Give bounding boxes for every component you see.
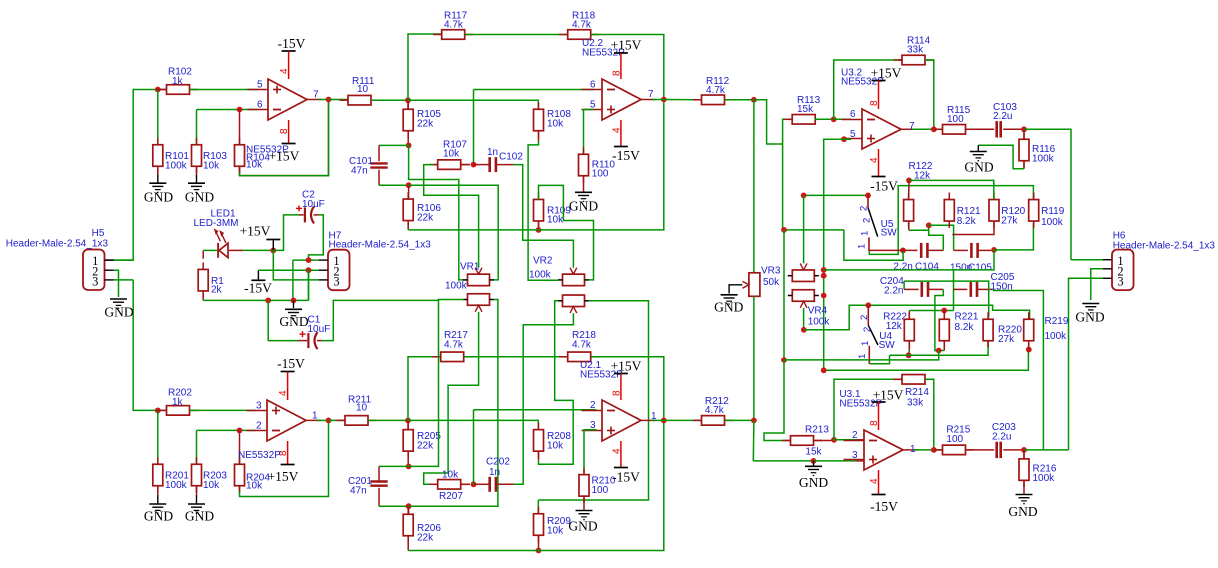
svg-text:22k: 22k [417,119,434,130]
svg-text:10k: 10k [442,470,459,481]
svg-text:2.2u: 2.2u [992,432,1011,443]
svg-text:VR4: VR4 [808,306,828,317]
svg-text:100k: 100k [165,161,188,172]
svg-text:1k: 1k [172,397,184,408]
svg-text:3: 3 [333,275,339,289]
svg-text:50k: 50k [763,277,780,288]
svg-text:GND: GND [185,509,214,524]
svg-text:10: 10 [356,403,368,414]
svg-text:R207: R207 [439,491,463,502]
svg-text:100k: 100k [529,270,552,281]
svg-text:100k: 100k [1033,473,1056,484]
svg-text:+15V: +15V [269,149,300,164]
svg-text:4: 4 [869,478,880,484]
svg-text:100: 100 [592,485,609,496]
svg-text:10k: 10k [547,526,564,537]
svg-text:8: 8 [279,128,290,134]
svg-text:-15V: -15V [870,499,898,514]
svg-text:15k: 15k [797,104,814,115]
svg-text:6: 6 [590,80,596,91]
svg-text:1n: 1n [489,467,500,478]
svg-text:+15V: +15V [611,359,642,374]
svg-text:-15V: -15V [278,36,306,51]
svg-text:4.7k: 4.7k [706,85,726,96]
svg-text:10k: 10k [547,215,564,226]
svg-text:2: 2 [256,421,262,432]
svg-text:VR3: VR3 [761,266,781,277]
svg-text:10k: 10k [443,149,460,160]
svg-text:GND: GND [279,314,308,329]
svg-text:2k: 2k [211,285,223,296]
svg-text:4.7k: 4.7k [572,340,592,351]
svg-text:7: 7 [909,121,915,132]
svg-text:GND: GND [964,160,993,175]
svg-text:NE5532P: NE5532P [238,450,281,461]
svg-text:C102: C102 [499,152,523,163]
svg-text:5: 5 [257,80,263,91]
svg-text:100k: 100k [165,480,188,491]
svg-text:8: 8 [612,70,623,76]
svg-text:6: 6 [257,100,263,111]
svg-text:1: 1 [860,231,871,236]
svg-text:10uF: 10uF [308,324,331,335]
svg-text:47n: 47n [351,166,368,177]
svg-text:VR1: VR1 [460,262,480,273]
svg-text:47n: 47n [350,486,367,497]
svg-text:150n: 150n [991,282,1013,293]
svg-text:+15V: +15V [268,469,299,484]
svg-text:22k: 22k [417,533,434,544]
svg-text:33k: 33k [907,398,924,409]
svg-text:+15V: +15V [871,66,902,81]
svg-text:8: 8 [869,100,880,106]
svg-text:GND: GND [144,190,173,205]
svg-text:8.2k: 8.2k [957,216,977,227]
svg-text:-15V: -15V [612,148,640,163]
svg-text:SW: SW [879,340,896,351]
svg-text:4: 4 [278,390,289,396]
svg-text:+15V: +15V [611,38,642,53]
svg-text:4.7k: 4.7k [444,340,464,351]
svg-text:3: 3 [92,275,98,289]
svg-text:C202: C202 [486,457,510,468]
svg-text:4: 4 [279,68,290,74]
svg-text:C105: C105 [968,263,992,274]
svg-text:7: 7 [648,89,654,100]
svg-text:3: 3 [256,401,262,412]
svg-text:2: 2 [862,327,873,332]
svg-text:4.7k: 4.7k [572,20,592,31]
svg-text:GND: GND [714,300,743,315]
svg-text:100: 100 [947,114,964,125]
svg-text:Header-Male-2.54_1x3: Header-Male-2.54_1x3 [6,239,109,250]
svg-text:15k: 15k [805,447,822,458]
svg-text:100k: 100k [1032,154,1055,165]
svg-text:VR2: VR2 [533,256,553,267]
svg-text:-15V: -15V [277,356,305,371]
svg-text:2.2n: 2.2n [884,286,903,297]
svg-text:100: 100 [946,434,963,445]
svg-text:10uF: 10uF [302,199,325,210]
svg-text:2: 2 [859,206,870,211]
svg-text:4: 4 [612,127,623,133]
svg-text:10: 10 [357,84,369,95]
svg-text:1k: 1k [172,76,184,87]
svg-text:Header-Male-2.54_1x3: Header-Male-2.54_1x3 [1113,240,1216,251]
svg-text:8: 8 [869,420,880,426]
svg-text:-15V: -15V [612,470,640,485]
svg-text:100k: 100k [1041,217,1064,228]
svg-text:1: 1 [857,244,868,249]
svg-text:GND: GND [144,509,173,524]
svg-text:33k: 33k [907,45,924,56]
svg-text:10k: 10k [246,160,263,171]
svg-text:8: 8 [612,390,623,396]
svg-text:R219: R219 [1045,316,1069,327]
svg-text:6: 6 [850,109,856,120]
svg-text:8.2k: 8.2k [955,322,975,333]
svg-text:+15V: +15V [873,388,904,403]
svg-text:GND: GND [1008,504,1037,519]
svg-text:-15V: -15V [244,281,272,296]
svg-text:10k: 10k [547,441,564,452]
svg-text:+15V: +15V [240,224,271,239]
svg-text:1n: 1n [487,147,498,158]
svg-text:Header-Male-2.54_1x3: Header-Male-2.54_1x3 [329,240,432,251]
svg-text:-15V: -15V [870,179,898,194]
svg-text:GND: GND [104,305,133,320]
svg-text:12k: 12k [886,321,903,332]
svg-text:GND: GND [568,519,597,534]
svg-text:R213: R213 [805,425,829,436]
svg-text:100k: 100k [808,317,831,328]
svg-text:22k: 22k [417,441,434,452]
svg-text:1: 1 [860,341,871,346]
svg-text:100: 100 [592,169,609,180]
svg-text:GND: GND [799,475,828,490]
svg-text:100k: 100k [1045,331,1068,342]
svg-text:GND: GND [185,190,214,205]
svg-text:2: 2 [852,430,858,441]
svg-text:LED-3MM: LED-3MM [193,218,238,229]
svg-text:2.2n: 2.2n [893,262,912,273]
svg-text:22k: 22k [417,213,434,224]
svg-text:1: 1 [857,354,868,359]
svg-text:H5: H5 [92,228,105,239]
svg-text:27k: 27k [998,334,1015,345]
svg-text:R214: R214 [905,387,929,398]
svg-text:3: 3 [852,450,858,461]
svg-text:10k: 10k [547,119,564,130]
svg-text:3: 3 [1117,275,1123,289]
svg-text:2: 2 [859,315,870,320]
svg-text:R119: R119 [1041,206,1065,217]
svg-text:4.7k: 4.7k [705,405,725,416]
svg-text:27k: 27k [1001,216,1018,227]
svg-text:C104: C104 [915,262,939,273]
svg-text:R221: R221 [955,312,979,323]
svg-text:10k: 10k [246,481,263,492]
svg-text:10k: 10k [203,161,220,172]
svg-text:4: 4 [612,448,623,454]
svg-text:4.7k: 4.7k [444,20,464,31]
svg-text:10k: 10k [203,480,220,491]
svg-text:2.2u: 2.2u [993,111,1012,122]
svg-text:SW: SW [881,228,898,239]
svg-text:GND: GND [1075,310,1104,325]
svg-text:2: 2 [862,218,873,223]
svg-text:5: 5 [850,129,856,140]
svg-text:2: 2 [590,400,596,411]
svg-text:100k: 100k [445,281,468,292]
svg-text:4: 4 [869,157,880,163]
svg-text:GND: GND [569,199,598,214]
